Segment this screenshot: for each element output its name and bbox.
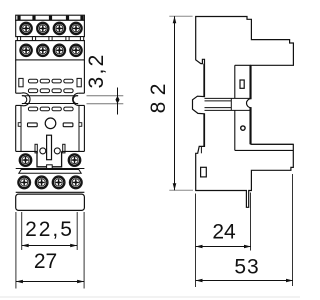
trapezoid bar — [19, 170, 81, 174]
dim line 24 — [196, 246, 252, 248]
screw terminal bottom-1 — [18, 176, 31, 189]
waist flange inner lines — [22, 96, 78, 104]
svg-text:3,2: 3,2 — [85, 52, 108, 88]
right slot rect mid — [63, 123, 73, 127]
screw terminal row2-1 — [20, 44, 33, 57]
central container — [37, 151, 62, 166]
dim line 27 — [16, 281, 84, 283]
dim 22,5 extension lines — [16, 212, 84, 289]
right side clip — [77, 78, 81, 86]
central vertical bar — [47, 135, 52, 160]
body side edges upper mid — [16, 60, 85, 93]
screw terminal bottom-3 — [52, 176, 65, 189]
top rail teeth — [17, 16, 20, 20]
side: slab internal lines — [235, 144, 293, 150]
screw terminal row1-1 — [20, 22, 33, 35]
screw terminal bottom-2 — [35, 176, 48, 189]
vent slots row A — [28, 79, 37, 83]
base top line — [16, 191, 85, 193]
side: tab divider — [200, 146, 202, 153]
svg-text:53: 53 — [234, 255, 259, 278]
shelf line — [16, 150, 85, 152]
flanking circles — [40, 148, 46, 154]
side: column walls — [235, 65, 250, 150]
left slot rect mid — [28, 123, 38, 127]
inner vertical ribs — [21, 105, 79, 151]
side: rail band lines — [205, 98, 251, 110]
mounting screw left — [19, 154, 32, 167]
side: hook wall inner line — [203, 64, 205, 146]
side: lower window rect — [201, 167, 207, 177]
dim 3,2 vertical line — [117, 88, 119, 115]
dim 3,2 extension lines — [87, 96, 124, 104]
left side clip — [19, 78, 23, 86]
side view outline — [193, 17, 294, 208]
screw terminal row2-2 — [36, 44, 49, 57]
dim line 53 — [196, 280, 294, 282]
svg-text:24: 24 — [212, 221, 236, 244]
svg-text:82: 82 — [147, 77, 170, 113]
small clips on ribs — [18, 123, 21, 127]
base plate — [16, 194, 85, 210]
body side edges lower mid — [16, 105, 85, 151]
svg-text:27: 27 — [34, 250, 57, 273]
center hole — [45, 118, 56, 129]
dim 82 line — [174, 16, 176, 190]
screw terminal row1-4 — [70, 22, 83, 35]
side: underside line of terminal block — [235, 64, 251, 66]
side: small hole — [241, 126, 245, 130]
waist flange outer lines and notch arcs — [16, 93, 85, 105]
svg-text:22,5: 22,5 — [25, 218, 74, 241]
dim line 22,5 — [22, 245, 77, 247]
screw terminal row2-4 — [70, 44, 83, 57]
dim 24/53 extension lines — [196, 174, 293, 287]
terminal block row 2 — [16, 41, 85, 60]
vent slots row B — [28, 89, 37, 93]
screw terminal row1-2 — [36, 22, 49, 35]
bottom separator line — [0, 296, 300, 298]
dim 82 extension lines — [169, 16, 193, 190]
screw terminal bottom-4 — [69, 176, 82, 189]
screw terminal row1-3 — [53, 22, 66, 35]
vent slots row C — [28, 107, 37, 111]
divider line — [16, 168, 85, 170]
mounting screw right — [68, 154, 81, 167]
screw terminal row2-3 — [53, 44, 66, 57]
front view: top rail — [16, 15, 85, 20]
terminal block row 1 — [16, 20, 85, 36]
side: window rect — [240, 80, 244, 88]
small posts — [35, 144, 37, 153]
teeth between terminal rows — [17, 37, 20, 41]
